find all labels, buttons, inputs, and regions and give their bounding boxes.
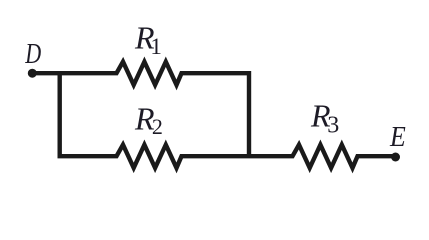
svg-text:D: D xyxy=(24,37,41,70)
svg-text:1: 1 xyxy=(150,34,162,59)
svg-text:E: E xyxy=(389,120,406,152)
svg-text:3: 3 xyxy=(327,113,339,139)
svg-text:2: 2 xyxy=(152,114,163,139)
